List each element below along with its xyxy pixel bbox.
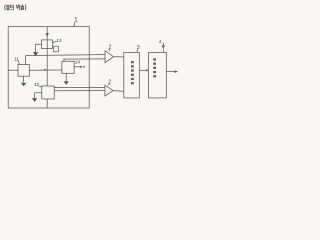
wire: box 12 left stub to ground xyxy=(35,93,42,98)
leader tick xyxy=(108,84,109,86)
leader tick xyxy=(109,49,110,51)
leader tick for label 1 xyxy=(74,22,75,26)
label 11 xyxy=(14,56,19,61)
wire B: lower horizontal to amplifier 2 xyxy=(63,58,105,60)
amplifier 2' (lower) xyxy=(105,85,113,96)
leader tick for label 12 xyxy=(39,86,42,87)
wire: box 12 bottom to outer boundary xyxy=(46,99,48,108)
wire: center horizontal mid segment xyxy=(29,69,62,71)
output arrow from block 4 xyxy=(166,71,175,73)
vertical text in block 4 xyxy=(153,58,156,77)
wire: drop from wire A to box 11 xyxy=(25,56,27,65)
arrow block 3 to block 4 xyxy=(139,69,146,71)
arrow into crystal from top xyxy=(46,27,48,40)
wire: box 14 to ground xyxy=(65,73,67,81)
leader tick for label 13 xyxy=(53,41,57,42)
vertical text in block 3 xyxy=(131,61,134,84)
wire: box 11 to ground xyxy=(23,76,25,82)
ground (below box 14) xyxy=(64,81,69,84)
junction arrowhead on center wire xyxy=(44,69,46,71)
label 13 xyxy=(56,38,62,43)
outer block boundary 1 xyxy=(8,27,89,108)
label 14 xyxy=(75,60,81,65)
wire A: upper horizontal to amplifier 2 xyxy=(26,54,105,57)
svg-text:x: x xyxy=(83,64,86,69)
label x xyxy=(83,64,86,69)
label 4 xyxy=(159,39,162,44)
block 3 xyxy=(124,52,140,98)
component box 12 xyxy=(42,86,54,99)
label 3 xyxy=(137,45,140,51)
block 4 xyxy=(148,52,166,98)
small box at crystal lower-right xyxy=(54,46,59,52)
wire: amplifier 2 output xyxy=(114,56,124,58)
amplifier 2 (upper) xyxy=(105,51,114,63)
arrow into block 4 xyxy=(162,43,164,46)
wire: box 12 top-right to amplifier 2' upper input xyxy=(54,86,105,88)
leader tick for label 3 xyxy=(137,49,138,52)
svg-text:13: 13 xyxy=(56,38,62,43)
ground (below box 11) xyxy=(21,83,26,86)
component box 11 xyxy=(18,65,29,77)
output arrow from box 14 xyxy=(74,66,80,68)
ground (left of crystal) xyxy=(33,52,38,56)
svg-text:14: 14 xyxy=(75,60,81,65)
leader tick for label 14 xyxy=(73,61,76,64)
label 1 xyxy=(74,18,78,24)
label 12 xyxy=(34,82,40,87)
label 2' xyxy=(108,79,111,85)
wire: center horizontal left segment xyxy=(8,69,18,71)
wire: box 12 right to amplifier 2' lower input xyxy=(54,90,105,92)
svg-text:11: 11 xyxy=(14,56,19,61)
wire: box 14 top stub to wire B xyxy=(63,59,65,61)
crystal box 13 xyxy=(42,40,53,49)
wire: amplifier 2' output xyxy=(113,90,124,93)
component box 14 xyxy=(62,61,74,73)
svg-text:4: 4 xyxy=(159,39,162,44)
wire: crystal left stub to ground xyxy=(36,44,42,52)
leader tick for label 11 xyxy=(18,60,20,64)
ground (left of box 12) xyxy=(32,98,37,102)
wire: center vertical xyxy=(46,40,48,86)
label 2 (upper) xyxy=(109,45,112,51)
figure caption (종래 기술) xyxy=(5,4,26,10)
